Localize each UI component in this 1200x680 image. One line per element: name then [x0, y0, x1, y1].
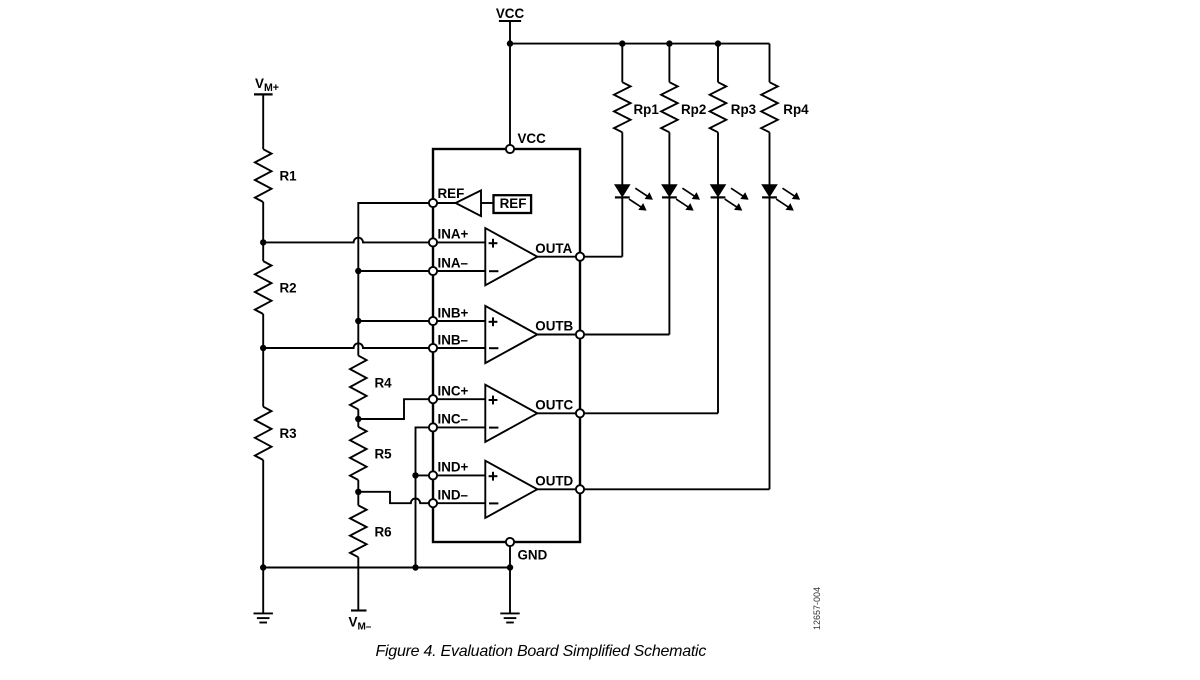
node R1/R2 INA+ tap: [260, 239, 266, 245]
pin OUTB: [576, 330, 584, 338]
node R5/R6 junction: [355, 489, 361, 495]
wire Rp3 to LED3: [717, 132, 719, 185]
svg-text:R5: R5: [375, 447, 393, 462]
wire R4 to R5: [357, 409, 359, 427]
node rail left: [260, 564, 266, 570]
op-amp B input stubs: [433, 321, 485, 348]
svg-text:IND–: IND–: [438, 488, 469, 503]
svg-text:R6: R6: [375, 524, 392, 539]
svg-text:Rp2: Rp2: [681, 102, 706, 117]
wire R5 to R6: [357, 480, 359, 505]
svg-text:REF: REF: [500, 196, 527, 211]
wire R4/R5 junction to INC+: [358, 399, 433, 419]
wire R2 to R3: [262, 314, 264, 407]
svg-text:OUTA: OUTA: [535, 241, 572, 256]
svg-text:OUTC: OUTC: [535, 398, 573, 413]
wire R3 to ground rail: [262, 460, 264, 568]
svg-text:Rp4: Rp4: [783, 102, 809, 117]
op-amp REF buffer: [433, 190, 494, 216]
node VCC rail junction: [507, 40, 513, 46]
op-amp A input stubs: [433, 242, 485, 271]
node ground column IND+: [412, 472, 418, 478]
wire IND+ stub: [416, 474, 434, 476]
svg-text:OUTB: OUTB: [535, 319, 573, 334]
pin INC-: [429, 423, 437, 431]
pin GND: [506, 538, 514, 546]
wire OUTA to LED1 column: [580, 256, 622, 258]
pin INB+: [429, 317, 437, 325]
wire INC- to ground column: [416, 427, 434, 567]
pin INA-: [429, 267, 437, 275]
svg-text:Figure 4. Evaluation Board Sim: Figure 4. Evaluation Board Simplified Sc…: [375, 643, 706, 660]
svg-text:12657-004: 12657-004: [812, 587, 822, 630]
node rail center: [412, 564, 418, 570]
wire Rp4 to LED4: [769, 132, 771, 185]
pin IND+: [429, 471, 437, 479]
wire OUTC to LED3 column: [580, 412, 718, 414]
op-amp A: [485, 228, 537, 285]
pin INC+: [429, 395, 437, 403]
svg-text:Rp3: Rp3: [731, 102, 756, 117]
resistor R2: [255, 261, 272, 314]
wire INB- row: [263, 343, 433, 348]
svg-text:INB+: INB+: [438, 305, 469, 320]
wire OUTA from op-amp: [537, 256, 580, 258]
op-amp D: [485, 461, 537, 518]
op-amp B: [485, 306, 537, 363]
svg-text:R1: R1: [280, 169, 298, 184]
wire R1 to R2: [262, 202, 264, 261]
svg-text:IND+: IND+: [438, 460, 469, 475]
svg-text:VCC: VCC: [496, 6, 525, 21]
wire Rp1 top lead: [621, 44, 623, 83]
wire OUTB to LED2 column: [580, 334, 669, 336]
node R4/R5 junction: [355, 416, 361, 422]
wire Rp2 top lead: [668, 44, 670, 83]
wire GND pin to ground: [509, 542, 511, 613]
wire R6 to VM-: [357, 557, 359, 610]
LED D3: [711, 185, 749, 211]
node R2/R3 INB- tap: [260, 345, 266, 351]
wire LED3 to OUTC: [717, 197, 719, 413]
node rail junction Rp3: [715, 40, 721, 46]
wire LED2 to OUTB: [668, 197, 670, 334]
power terminal VM+: [254, 94, 273, 149]
svg-text:INC–: INC–: [438, 412, 469, 427]
pin INA+: [429, 238, 437, 246]
svg-text:VCC: VCC: [518, 131, 547, 146]
resistor R1: [255, 149, 272, 202]
wire OUTB from op-amp: [537, 334, 580, 336]
svg-text:R3: R3: [280, 426, 297, 441]
ground symbol right: [500, 613, 519, 622]
wire ground rail: [263, 567, 510, 569]
wire INB+ row: [358, 320, 433, 322]
resistor Rp2: [661, 82, 678, 132]
wire Rp2 to LED2: [668, 132, 670, 185]
resistor Rp1: [614, 82, 631, 132]
resistor Rp4: [761, 82, 778, 132]
svg-text:GND: GND: [518, 548, 548, 563]
resistor Rp3: [710, 82, 727, 132]
wire LED4 to OUTD: [769, 197, 771, 489]
svg-text:R4: R4: [375, 376, 393, 391]
svg-text:REF: REF: [438, 186, 465, 201]
svg-text:R2: R2: [280, 281, 297, 296]
node rail junction Rp2: [666, 40, 672, 46]
resistor R6: [350, 505, 367, 557]
node middle column INA-: [355, 268, 361, 274]
LED D4: [762, 185, 800, 211]
ground symbol left: [254, 568, 273, 623]
svg-text:INB–: INB–: [438, 332, 469, 347]
wire REF to middle column: [358, 203, 433, 356]
wire OUTD from op-amp: [537, 488, 580, 490]
svg-text:Rp1: Rp1: [634, 102, 660, 117]
wire LED1 to OUTA: [621, 197, 623, 256]
wire R5/R6 junction to IND-: [358, 492, 433, 503]
svg-text:INA–: INA–: [438, 255, 469, 270]
wire INA+ row: [263, 238, 433, 243]
power terminal VCC: [499, 21, 521, 149]
wire Rp4 top lead: [769, 44, 771, 83]
wire Rp1 to LED1: [621, 132, 623, 185]
node middle column INB+: [355, 318, 361, 324]
node rail junction Rp1: [619, 40, 625, 46]
svg-text:INC+: INC+: [438, 384, 469, 399]
wire OUTC from op-amp: [537, 412, 580, 414]
pin OUTA: [576, 253, 584, 261]
resistor R3: [255, 407, 272, 460]
wire INA- row: [358, 270, 433, 272]
LED D1: [615, 185, 653, 211]
pin REF: [429, 199, 437, 207]
REF block: [494, 195, 532, 213]
pin OUTC: [576, 409, 584, 417]
node rail right: [507, 564, 513, 570]
pin INB-: [429, 344, 437, 352]
op-amp D input stubs: [433, 475, 485, 503]
svg-text:INA+: INA+: [438, 227, 469, 242]
wire OUTD to LED4 column: [580, 488, 770, 490]
svg-text:OUTD: OUTD: [535, 474, 573, 489]
resistor R5: [350, 427, 367, 480]
power terminal VM-: [351, 609, 367, 611]
pin IND-: [429, 499, 437, 507]
pin VCC: [506, 145, 514, 153]
op-amp C input stubs: [433, 399, 485, 427]
LED D2: [662, 185, 700, 211]
resistor R4: [350, 356, 367, 410]
IC box U1: [433, 149, 580, 542]
wire top rail: [510, 43, 770, 45]
pin OUTD: [576, 485, 584, 493]
wire Rp3 top lead: [717, 44, 719, 83]
op-amp C: [485, 385, 537, 442]
